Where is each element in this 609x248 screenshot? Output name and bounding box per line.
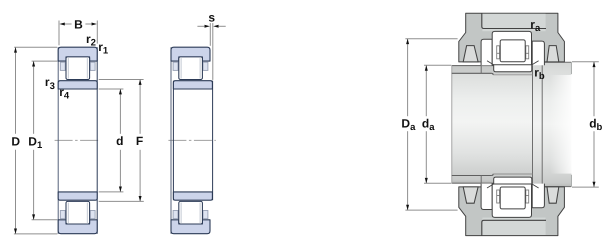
middle figure: inner ring side faces <box>172 81 174 201</box>
dimension D1: dimension line <box>33 61 35 134</box>
mounted bearing bottom: inner ring chamfer diagonals <box>487 184 494 188</box>
shoulder face edge <box>480 65 482 73</box>
middle bearing bottom half: inner ring <box>173 192 212 200</box>
collar edges <box>532 62 534 186</box>
dimension F: extension lines <box>99 79 144 81</box>
shaft left end face <box>451 65 453 183</box>
collar top/bottom edges <box>545 61 572 63</box>
mounted bearing top: right abutment ring <box>532 41 544 65</box>
left bearing top half: outer ring <box>58 47 97 61</box>
mounted bearing bottom: left abutment ring <box>481 184 492 210</box>
mounted bearing bottom: right abutment ring <box>532 184 544 208</box>
svg-text:D: D <box>11 135 20 149</box>
mounted bearing top: inner ring chamfer diagonals <box>487 61 494 65</box>
housing counterbore light zone (top) <box>482 14 545 31</box>
housing (top) <box>459 13 565 62</box>
shaft outline top/bottom <box>452 65 567 67</box>
housing shoulder insert top-right <box>547 46 559 62</box>
middle bearing top half: inner ring <box>173 81 212 89</box>
left bearing bottom half: cage sections <box>60 211 65 219</box>
mounted bearing top: cage sections <box>497 46 500 59</box>
middle bearing top half: roller <box>179 57 203 80</box>
dimension da: dimension line <box>425 65 427 116</box>
svg-text:F: F <box>136 134 143 148</box>
dimension Da: dimension line <box>407 39 409 117</box>
dimension B: dimension line <box>65 23 72 25</box>
housing shoulder insert bottom-right <box>547 187 559 203</box>
housing shoulder insert top-left <box>463 46 478 62</box>
middle bearing top half: outer ring <box>171 47 210 61</box>
middle figure: centerline <box>168 139 215 141</box>
shaft shoulder line mirrored <box>452 175 492 177</box>
shaft <box>452 65 571 183</box>
middle bearing top half: cage bars <box>181 58 200 78</box>
mounted bearing bottom: roller <box>500 187 525 209</box>
left bearing bottom half: roller <box>66 201 90 224</box>
dimension F: dimension line <box>139 80 141 134</box>
housing bore edge (bottom) <box>482 220 546 235</box>
housing shoulder insert bottom-left <box>463 187 478 203</box>
housing counterbore light zone (bottom) <box>482 218 545 235</box>
left figure: centerline <box>55 139 99 141</box>
middle figure: outer ring side faces <box>170 47 172 234</box>
dimension s: extension lines <box>209 23 211 46</box>
left figure: bearing side faces <box>57 47 59 234</box>
housing bore edge (top) <box>482 13 546 28</box>
mounted bearing top: inner ring band <box>494 65 532 72</box>
svg-text:d: d <box>116 134 123 148</box>
middle bearing top half: cage sections <box>173 62 178 70</box>
left bearing top half: roller <box>66 57 90 80</box>
dimension d: dimension line <box>119 89 121 134</box>
dimension da: extension lines <box>424 64 451 66</box>
middle bearing bottom half: cage sections <box>173 211 178 219</box>
left bearing bottom half: inner ring <box>58 192 97 200</box>
mounted bearing top: outer ring and inner ring <box>492 31 531 65</box>
dimension s: dimension line and arrows <box>197 25 204 27</box>
shaft right fade (middle only) <box>550 75 578 174</box>
dimension D1: extension lines <box>32 60 58 62</box>
mounted bearing bottom: outer ring and inner ring <box>492 184 531 218</box>
abutment collar on shaft (db side) <box>533 62 572 186</box>
housing (bottom) <box>459 187 565 236</box>
left bearing top half: inner ring <box>58 81 97 89</box>
left bearing top half: cage sections <box>60 62 65 70</box>
left bearing bottom half: cage bars <box>68 203 87 223</box>
dimension D: dimension line <box>15 47 17 134</box>
left bearing top half: cage bars <box>68 58 87 78</box>
middle bearing bottom half: outer ring <box>171 220 210 234</box>
svg-text:B: B <box>74 17 83 31</box>
dimension B: extension lines <box>58 21 60 46</box>
dimension Da: extension lines <box>405 38 457 40</box>
dimension D: extension lines <box>14 46 57 48</box>
left bearing bottom half: outer ring <box>58 220 97 234</box>
dimension db: dimension line <box>593 62 595 116</box>
mounted bearing top: left abutment ring <box>481 39 492 65</box>
middle bearing bottom half: cage bars <box>181 203 200 223</box>
shaft shoulder line (da) <box>452 72 492 74</box>
svg-text:s: s <box>208 10 215 24</box>
mounted bearing bottom: cage sections <box>497 190 500 203</box>
dimension d: extension lines <box>99 88 124 90</box>
middle bearing bottom half: roller <box>179 201 203 224</box>
dimension db: extension lines <box>572 61 599 63</box>
mounted bearing bottom: inner ring band <box>494 177 532 184</box>
mounted bearing top: roller <box>500 40 525 62</box>
